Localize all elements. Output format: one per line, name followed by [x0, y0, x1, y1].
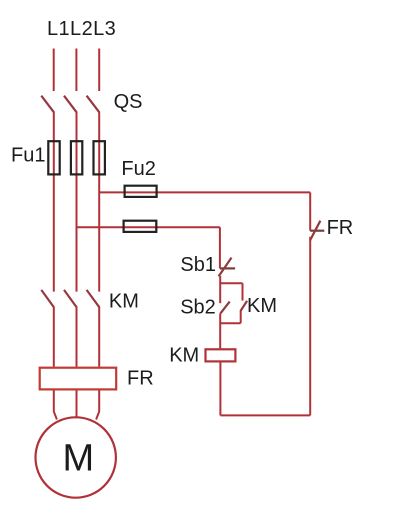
wire phase B lower [76, 307, 78, 367]
wire phase A top [53, 49, 55, 92]
wire phase A lower [53, 307, 55, 367]
contact FR seat tick [310, 230, 324, 232]
svg-text:KM: KM [247, 295, 277, 317]
svg-text:FR: FR [127, 368, 154, 390]
fuse Fu2 upper [125, 186, 157, 197]
svg-text:L1L2L3: L1L2L3 [47, 18, 116, 40]
button Sb2 blade [220, 302, 229, 314]
wire phase C top [98, 49, 100, 92]
wire KM aux upper terminal [242, 283, 244, 300]
wire phase C middle [98, 112, 100, 292]
svg-text:KM: KM [169, 344, 199, 366]
wire phase C lower [98, 307, 100, 367]
contactor KM pole 3 blade [87, 290, 100, 308]
wire phase A middle [53, 112, 55, 292]
svg-text:M: M [63, 438, 95, 480]
switch QS pole 1 blade [41, 96, 54, 113]
wire right rail lower [309, 237, 311, 416]
svg-text:Sb2: Sb2 [180, 296, 216, 318]
fuse Fu2 lower [124, 221, 157, 232]
wire control drop to Sb1 [219, 227, 221, 268]
contact KM aux blade [240, 301, 247, 311]
svg-text:KM: KM [109, 290, 139, 312]
wire KM aux branch top [220, 282, 242, 284]
switch QS pole 2 blade [64, 96, 77, 113]
fuse Fu1 pole 1 [48, 141, 59, 174]
fuse Fu1 pole 3 [94, 141, 105, 174]
wire bottom rail [220, 414, 310, 416]
contact FR blade [310, 221, 320, 241]
motor M circle [35, 417, 115, 497]
wire coil to bottom rail [219, 363, 221, 416]
svg-text:Sb1: Sb1 [180, 254, 216, 276]
wire control branch 2 (phase B to Sb1) [77, 226, 220, 228]
wire phase B top [75, 49, 77, 92]
fuse Fu1 pole 2 [71, 141, 82, 174]
wire KM aux branch bottom [220, 322, 241, 324]
svg-text:QS: QS [114, 91, 143, 113]
svg-text:Fu2: Fu2 [121, 158, 155, 180]
wire motor lead A [54, 391, 57, 420]
wire KM aux lower terminal [240, 311, 242, 323]
wire Sb1 to Sb2 [219, 276, 221, 303]
button Sb1 seat tick [220, 267, 235, 269]
wire motor lead C [96, 391, 99, 420]
svg-text:FR: FR [327, 217, 354, 239]
switch QS pole 3 blade [87, 96, 100, 113]
wire phase B middle [76, 112, 78, 292]
wire right rail upper [309, 192, 311, 230]
wire motor lead B [76, 391, 78, 418]
contactor KM pole 2 blade [64, 290, 77, 308]
wire Sb2 to coil [219, 313, 221, 348]
wire control branch 1 (phase C to right rail) [99, 191, 310, 193]
overload relay FR box [40, 368, 117, 390]
contactor KM pole 1 blade [41, 290, 54, 308]
button Sb1 blade [219, 258, 232, 277]
svg-text:Fu1: Fu1 [11, 144, 45, 166]
coil KM [206, 349, 236, 361]
